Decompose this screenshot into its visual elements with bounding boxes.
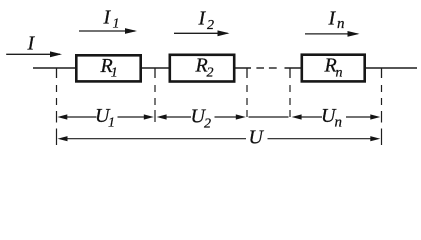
current arrow I bbox=[6, 51, 62, 57]
svg-text:1: 1 bbox=[111, 66, 118, 81]
dashed extension line at right terminal bbox=[381, 85, 383, 145]
current arrow I2 bbox=[174, 30, 230, 36]
svg-text:I: I bbox=[328, 8, 337, 30]
svg-text:U: U bbox=[249, 127, 265, 149]
svg-text:2: 2 bbox=[204, 117, 211, 132]
svg-text:1: 1 bbox=[108, 116, 115, 131]
svg-text:2: 2 bbox=[207, 18, 214, 33]
dashed extension line at left terminal bbox=[56, 85, 58, 145]
label Un bbox=[321, 105, 342, 131]
svg-text:2: 2 bbox=[207, 66, 214, 81]
node tick before Rn bbox=[289, 68, 291, 78]
svg-text:I: I bbox=[27, 33, 36, 55]
dashed extension line between R1 and R2 bbox=[154, 85, 156, 122]
current arrow I1 bbox=[79, 28, 137, 34]
label U2 bbox=[191, 106, 212, 132]
svg-text:n: n bbox=[335, 115, 343, 131]
svg-text:I: I bbox=[198, 8, 207, 30]
voltage dimension U (total) bbox=[58, 136, 381, 141]
node tick at left terminal bbox=[56, 68, 58, 78]
wire: between R1 and R2 bbox=[141, 67, 170, 69]
wire: dashed continuation break bbox=[256, 67, 264, 69]
label I1 bbox=[103, 7, 120, 32]
node tick after R2 bbox=[246, 68, 248, 78]
wire: R2 to break bbox=[235, 67, 252, 69]
node tick after Rn bbox=[381, 68, 383, 78]
voltage dimension U1 bbox=[57, 114, 154, 119]
label I2 bbox=[198, 8, 215, 34]
label R2 bbox=[195, 55, 214, 81]
node tick between R1 and R2 bbox=[154, 68, 156, 78]
label In bbox=[328, 8, 345, 33]
resistor R1 bbox=[76, 55, 140, 81]
wire: Rn to right end bbox=[365, 67, 417, 69]
voltage dimension U2 bbox=[157, 114, 246, 119]
svg-text:1: 1 bbox=[113, 17, 120, 32]
resistor R2 bbox=[170, 55, 234, 82]
wire: left feed to R1 bbox=[33, 67, 76, 69]
label U1 bbox=[95, 105, 115, 131]
svg-text:n: n bbox=[336, 66, 343, 81]
wire: break to Rn bbox=[285, 67, 303, 69]
dimension line of hidden middle section bbox=[249, 116, 289, 118]
label R1 bbox=[100, 55, 118, 81]
dashed extension line before Rn bbox=[289, 85, 291, 117]
label Rn bbox=[324, 55, 343, 81]
dashed extension line after R2 bbox=[246, 85, 248, 117]
current arrow In bbox=[305, 31, 360, 37]
resistor Rn bbox=[302, 55, 365, 82]
voltage dimension Un bbox=[292, 114, 381, 119]
svg-text:I: I bbox=[103, 7, 112, 29]
svg-text:n: n bbox=[337, 16, 345, 32]
